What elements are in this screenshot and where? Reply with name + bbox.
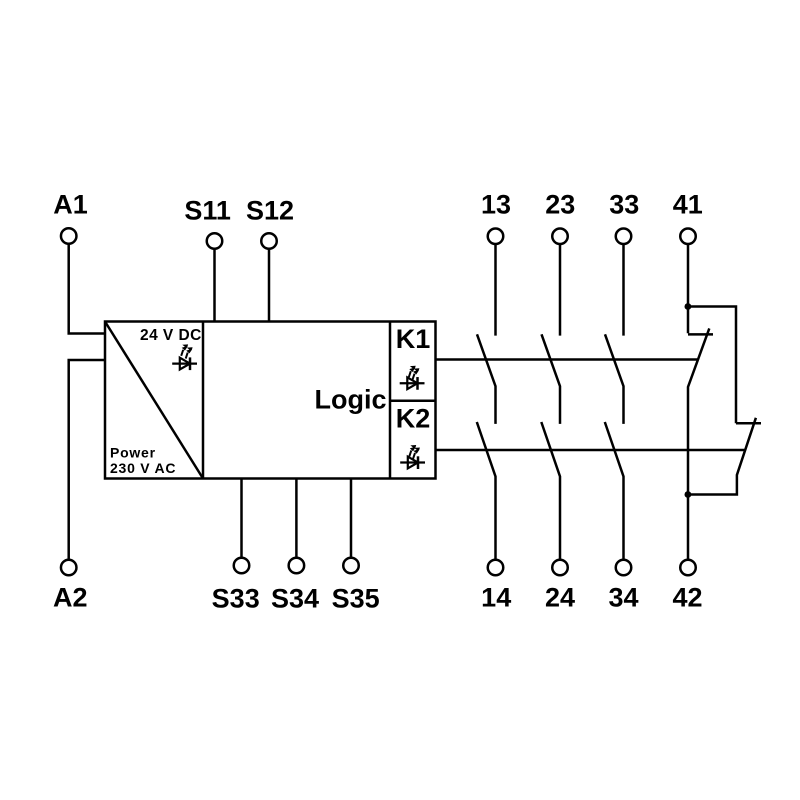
terminal 42 (680, 560, 696, 576)
svg-text:23: 23 (545, 190, 575, 220)
terminal 13 (488, 229, 504, 245)
power section divider (202, 322, 205, 479)
wire S35 (350, 479, 353, 558)
terminal S35 (343, 558, 359, 574)
terminal 33 (616, 229, 632, 245)
svg-text:14: 14 (481, 583, 511, 613)
K1/K2 divider (390, 400, 436, 403)
junction dot upper (685, 303, 692, 310)
terminal circles (61, 228, 696, 575)
svg-text:24 V DC: 24 V DC (140, 327, 202, 344)
terminal 23 (552, 229, 568, 245)
wire 41 feed (687, 244, 690, 333)
NC contact K1 seat (688, 333, 713, 336)
svg-text:A1: A1 (53, 190, 88, 220)
svg-text:S11: S11 (184, 196, 231, 226)
NC contact K2 seat (736, 422, 761, 425)
terminal A1 (61, 228, 77, 244)
wire A1 (69, 244, 105, 334)
terminal A2 (61, 560, 77, 576)
svg-text:42: 42 (672, 583, 702, 613)
junction dot lower (685, 491, 692, 498)
terminal S33 (234, 558, 250, 574)
svg-text:13: 13 (481, 190, 511, 220)
svg-text:24: 24 (545, 583, 575, 613)
svg-text:A2: A2 (53, 583, 88, 613)
svg-text:Power: Power (110, 445, 156, 461)
power diagonal (105, 322, 203, 479)
svg-text:41: 41 (673, 190, 703, 220)
NC contact K2 blade (688, 418, 756, 495)
terminal 41 (680, 229, 696, 245)
wire K1 actuator (436, 358, 699, 361)
LED K2 (400, 445, 425, 469)
terminal S11 (207, 233, 223, 249)
terminal S34 (289, 558, 305, 574)
svg-text:S12: S12 (246, 196, 294, 226)
contact 13-14 upper (494, 244, 497, 335)
K section divider (389, 322, 392, 479)
wire S33 (240, 479, 243, 558)
terminal S12 (261, 233, 277, 249)
terminal 14 (488, 560, 504, 576)
wire K2 actuator (436, 449, 746, 452)
svg-text:K1: K1 (396, 324, 431, 354)
wire S11 (213, 249, 216, 322)
LED K1 (400, 366, 425, 390)
LED power section (172, 344, 197, 370)
svg-text:34: 34 (608, 583, 638, 613)
svg-text:K2: K2 (396, 404, 431, 434)
terminal 24 (552, 560, 568, 576)
wire A2 (69, 360, 105, 560)
wire S12 (268, 249, 271, 322)
terminal 34 (616, 560, 632, 576)
svg-text:S33: S33 (212, 584, 260, 614)
contact 13-14 lower (477, 422, 496, 560)
device box (105, 322, 436, 479)
contact 23-24 upper (559, 244, 562, 335)
contact 33-34 lower (605, 422, 624, 560)
wire S34 (295, 479, 298, 558)
NC contact K1 blade (688, 328, 709, 559)
svg-text:230 V AC: 230 V AC (110, 460, 176, 476)
wire 41 branch to K2 contact (688, 307, 736, 424)
svg-text:33: 33 (609, 190, 639, 220)
svg-text:S35: S35 (332, 584, 380, 614)
svg-text:S34: S34 (271, 584, 319, 614)
svg-text:Logic: Logic (315, 385, 387, 415)
contact 33-34 upper (622, 244, 625, 335)
contact 23-24 lower (541, 422, 560, 560)
